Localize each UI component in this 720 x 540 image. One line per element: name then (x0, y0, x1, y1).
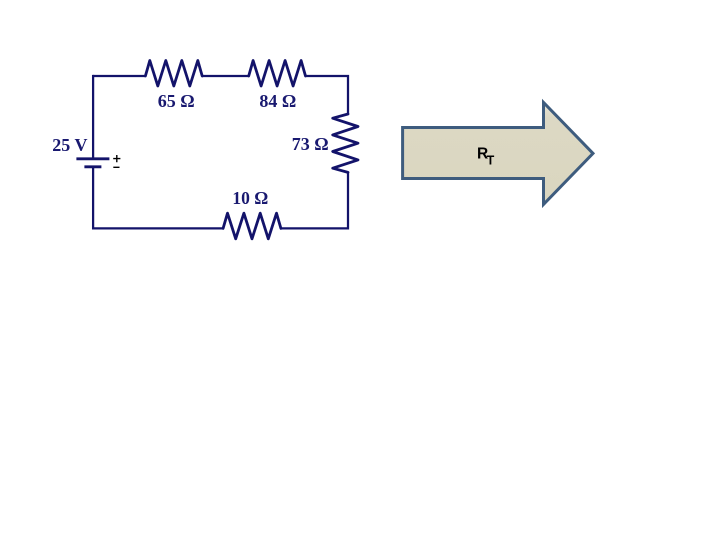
wire left lower segment (92, 167, 94, 230)
svg-text:25 V: 25 V (52, 135, 87, 155)
battery polarity plus (113, 155, 120, 162)
battery polarity minus (113, 166, 119, 168)
svg-text:10 Ω: 10 Ω (232, 188, 268, 208)
wire top-middle segment (202, 75, 249, 77)
svg-text:T: T (487, 154, 495, 168)
resistor R1 65 ohm (145, 61, 202, 87)
arrow RT block shape (403, 102, 593, 204)
svg-text:84 Ω: 84 Ω (259, 91, 296, 111)
wire top-left segment (93, 75, 145, 77)
resistor R2 84 ohm (249, 61, 306, 87)
wire right lower segment (347, 172, 349, 229)
wire bottom-left segment (92, 227, 223, 229)
svg-text:73 Ω: 73 Ω (292, 134, 329, 154)
wire top-right corner segment (306, 75, 349, 114)
resistor R3 73 ohm (333, 114, 358, 172)
wire left upper segment (92, 75, 93, 159)
resistor R4 10 ohm (223, 213, 281, 239)
battery V1 short plate (84, 165, 101, 168)
svg-text:65 Ω: 65 Ω (158, 91, 195, 111)
battery V1 long plate (76, 157, 109, 160)
wire bottom-right segment (281, 227, 348, 229)
